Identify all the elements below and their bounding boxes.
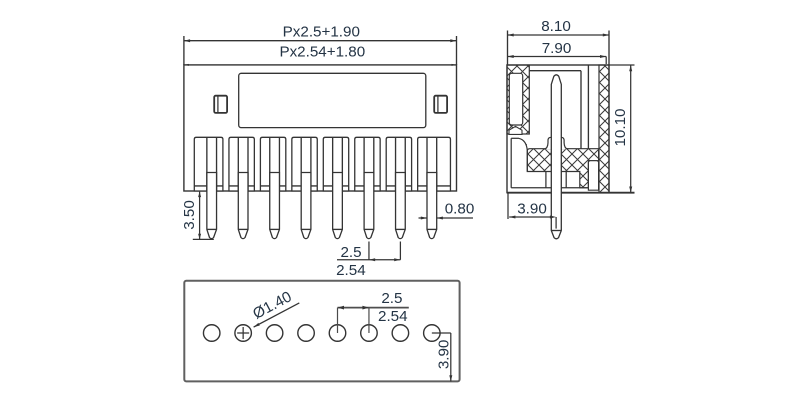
svg-text:0.80: 0.80 [445,200,475,217]
svg-text:2.54: 2.54 [378,308,408,325]
bottom view: hole diameter callout Ø1.40 [250,288,299,327]
front view: solder pin 1 [207,173,217,239]
side view: left wall hatched section [507,65,529,134]
bottom view: drill hole 3 [266,325,283,342]
bottom view: drill hole 5 [329,325,346,342]
side view: shroud inner wall lines [529,65,588,149]
side view: width dimension 7.90 [508,40,607,64]
side view: bottom recess step lines [511,138,588,188]
bottom view: hole row offset dimension 3.90 [432,333,452,381]
svg-text:3.50: 3.50 [181,200,198,230]
side view: right wall hatched section [599,65,609,193]
side view: wire funnel notch [509,126,522,134]
front view: solder pin 5 [333,173,343,239]
svg-text:10.10: 10.10 [612,108,629,146]
front view: pin shroud tower 8 [418,137,451,191]
side view: contact pin [551,75,561,239]
bottom view: drill hole 7 [392,325,409,342]
side view: body bottom edge [507,192,635,194]
svg-text:3.90: 3.90 [517,201,547,218]
svg-text:7.90: 7.90 [542,40,572,57]
front view: solder pin 2 [238,173,248,239]
front view: plug opening recess [239,73,426,127]
front view: pin shroud tower 7 [386,137,411,191]
front view: pin shroud tower 4 [292,137,317,191]
front view: solder pin 3 [270,173,280,239]
front view: pitch dimension 2.5 / 2.54 [336,242,400,280]
front view: overall width dimension Px2.5+1.90 [184,24,457,65]
svg-text:Px2.54+1.80: Px2.54+1.80 [279,44,365,61]
front view: solder pin 7 [396,173,406,239]
side view: bottom hatched section [519,138,599,188]
front view: pin width dimension 0.80 [419,200,475,219]
front view: pin shroud tower 3 [260,137,285,191]
svg-text:2.5: 2.5 [340,244,361,261]
bottom view: drill hole 6 [361,325,378,342]
svg-text:2.5: 2.5 [381,290,402,307]
front view: right latch slot [434,96,447,113]
bottom view: drill hole 2 [235,325,252,342]
front view: pin shroud tower 2 [229,137,254,191]
bottom view: drill hole 4 [298,325,315,342]
svg-text:Px2.5+1.90: Px2.5+1.90 [283,24,360,41]
side view: width dimension 8.10 [508,18,610,65]
bottom view: drill hole 8 [424,325,441,342]
side view: pin position dimension 3.90 [508,193,556,229]
svg-text:2.54: 2.54 [336,262,366,279]
front view: solder pin 4 [301,173,311,239]
svg-text:3.90: 3.90 [435,340,452,370]
front view: width dimension Px2.54+1.80 label [279,44,365,61]
front view: connector body outline [184,64,457,191]
bottom view: drill hole 1 [203,325,220,342]
svg-text:8.10: 8.10 [541,18,571,35]
front view: pin shroud tower 6 [355,137,380,191]
side view: height dimension 10.10 [609,65,635,193]
front view: pin shroud tower 5 [323,137,348,191]
side view: body outline [507,65,609,193]
front view: pin shroud tower 1 [194,137,223,191]
bottom view: hole 2 center cross [237,327,249,339]
bottom view: hole pitch dimension 2.5 / 2.54 [338,290,409,333]
bottom view: PCB footprint outline [184,281,459,382]
front view: left latch slot [214,96,227,113]
front view: solder pin 8 [427,173,437,239]
side view: pin boss pedestal [544,137,568,149]
front view: solder pin 6 [364,173,374,239]
front view: pin length dimension 3.50 [181,192,214,240]
side view: left wall slot [509,73,522,125]
side view: right wall slot [588,161,598,191]
